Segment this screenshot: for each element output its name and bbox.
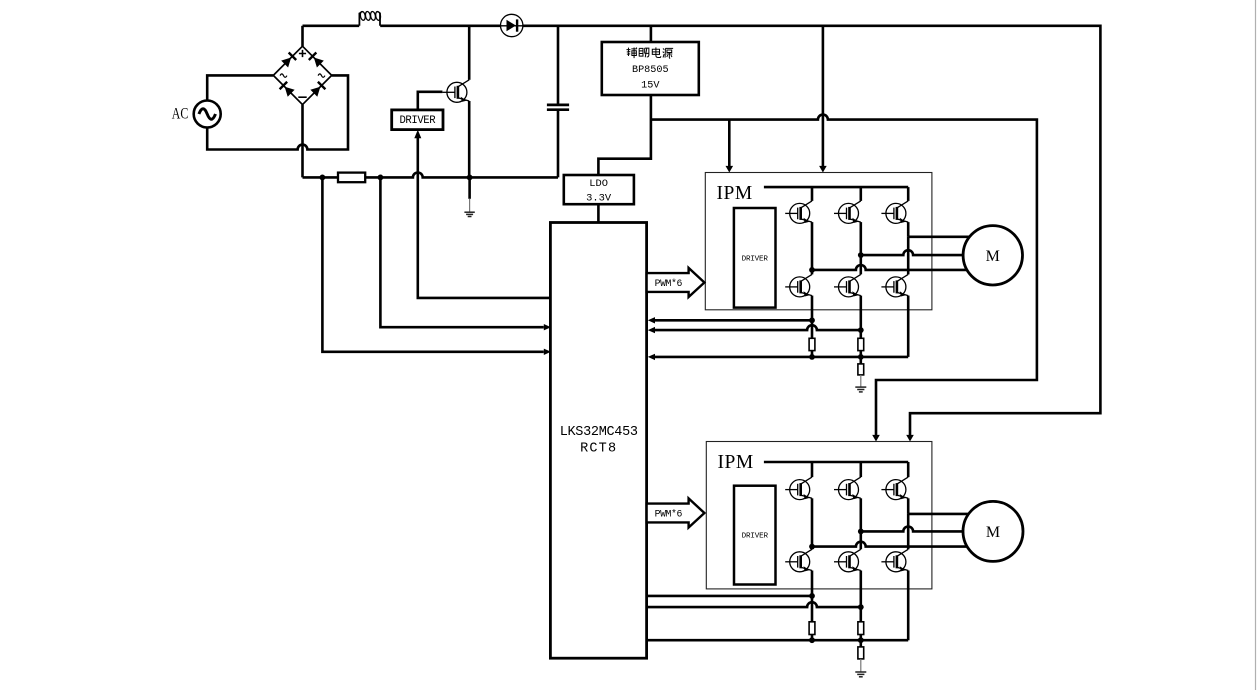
IPM2 sense line1: [647, 595, 812, 598]
LDO box: [564, 175, 634, 204]
IPM1 top transistor T2: [834, 201, 861, 224]
IPM2 bottom transistor B2: [834, 549, 861, 572]
diode D1: [500, 25, 523, 27]
IPM2 phase V wire (hop leg3): [861, 527, 993, 532]
capacitor C1: [547, 104, 569, 107]
IPM2 top transistor T3: [881, 477, 908, 500]
bridge ~ mark right: [318, 74, 325, 77]
ground G1: [468, 177, 471, 198]
MCU box LKS32MC453: [550, 223, 646, 659]
IPM2 bottom transistor B3: [881, 549, 908, 572]
motor M (IPM2): [963, 501, 1023, 561]
svg-text:M: M: [986, 248, 1000, 265]
svg-text:IPM: IPM: [717, 183, 753, 204]
IPM1 bottom transistor B2: [834, 274, 861, 297]
wire top DC bus: [303, 26, 1101, 437]
IPM2 box: [706, 442, 932, 589]
wire DRIVER to Q1 gate: [418, 92, 443, 110]
IPM1 junction dot s2: [858, 327, 864, 333]
transistor Q1 (PFC switch): [442, 80, 469, 103]
svg-text:3.3V: 3.3V: [586, 193, 612, 205]
arrow DC bus into IPM2: [906, 435, 914, 442]
arrow tap1 into MCU: [544, 349, 551, 355]
wire top bus to aux box: [650, 26, 653, 42]
IPM1 leg1 upper wires: [811, 187, 814, 201]
IPM1 phase V wire (hop leg3): [861, 250, 993, 255]
IPM2 junction dot s3a: [809, 637, 815, 643]
svg-text:BP8505: BP8505: [632, 65, 669, 76]
IPM2 junction dot s1: [809, 593, 815, 599]
label 辅助电源: [626, 47, 673, 58]
IPM2 shunt R_a: [811, 596, 814, 622]
IPM2 sense line3: [647, 639, 909, 642]
resistor R1: [338, 173, 365, 183]
aux power supply box BP8505: [602, 42, 699, 95]
IPM1 box: [705, 173, 932, 310]
svg-text:M: M: [986, 524, 1000, 541]
IPM1 junction dot phase V: [858, 252, 864, 258]
IPM1 sense line3: [654, 356, 908, 359]
IPM1 junction dot phase U: [809, 267, 815, 273]
IPM1 junction dot s3a: [809, 354, 815, 360]
IPM2 junction dot phase U: [809, 544, 815, 550]
IPM1 leg2 upper wires: [859, 187, 862, 201]
wire cap top: [557, 26, 560, 105]
IPM1 PWM*6 arrow: [647, 268, 705, 297]
IPM2 phase U wire (hop leg2): [812, 542, 993, 547]
IPM2 bottom transistor B1: [785, 549, 812, 572]
DRIVER box U2: [392, 110, 443, 130]
IPM1 phase U wire (hop leg2): [812, 265, 993, 270]
IPM1 shunt R_b: [859, 330, 862, 338]
wire cap bottom: [557, 110, 560, 178]
IPM2 sense line2 (hop leg1): [647, 602, 861, 607]
IPM1 top transistor T3: [881, 201, 908, 224]
wire bridge- dropper (hop drawn on AC wire): [301, 105, 304, 178]
IPM2 top transistor T2: [834, 477, 861, 500]
svg-text:IPM: IPM: [718, 452, 754, 473]
IPM2 leg1 upper wires: [811, 462, 814, 477]
wire 15V drop to IPM1: [728, 120, 731, 168]
svg-text:PWM*6: PWM*6: [655, 508, 683, 519]
svg-text:DRIVER: DRIVER: [399, 115, 436, 127]
IPM2 junction dot phase V: [858, 529, 864, 535]
motor M (IPM1): [963, 226, 1022, 285]
IPM1 sense line2 (hop leg1): [654, 325, 861, 330]
arrow 15V into IPM1: [726, 166, 734, 173]
bridge + mark: [299, 50, 306, 57]
wire DC drop to IPM1: [822, 26, 825, 168]
svg-text:DRIVER: DRIVER: [742, 533, 769, 541]
IPM1 shunt R_a: [811, 320, 814, 338]
IPM2 top rail: [764, 461, 908, 464]
svg-text:AC: AC: [172, 105, 189, 122]
inductor L1: [359, 13, 380, 26]
IPM2 shunt R_b: [859, 607, 862, 622]
wire 15V rail (hop over DC feed): [651, 115, 1037, 437]
IPM1 top transistor T1: [785, 201, 812, 224]
wire sense bus (hop over driver signal): [303, 172, 559, 177]
bridge ~ mark left: [280, 74, 287, 77]
wire bridge+ riser: [301, 26, 304, 46]
IPM2 phase W wire: [908, 513, 993, 516]
svg-text:LDO: LDO: [589, 178, 608, 190]
arrow DC into IPM1: [819, 166, 827, 173]
wire Q1 collector: [468, 26, 471, 80]
svg-text:RCT8: RCT8: [580, 442, 617, 457]
wire AC bottom (hop over bridge return): [207, 75, 348, 149]
IPM2 PWM*6 arrow: [647, 498, 705, 527]
wire LDO to MCU: [597, 204, 600, 222]
svg-text:15V: 15V: [641, 80, 660, 91]
IPM1 bottom transistor B3: [881, 274, 908, 297]
junction dot bus tap1: [320, 175, 326, 181]
AC source V1: [194, 101, 221, 128]
IPM1 shunt R_c to ground: [859, 357, 862, 364]
IPM1 phase W wire: [908, 236, 993, 239]
IPM1 DRIVER box: [734, 208, 776, 308]
svg-text:PWM*6: PWM*6: [655, 278, 683, 289]
IPM2 leg2 upper wires: [859, 462, 862, 477]
junction dot Q1 emitter: [467, 175, 473, 181]
right page border: [1255, 0, 1257, 690]
IPM2 junction dot s3b: [858, 637, 864, 643]
bridge - mark: [298, 96, 306, 98]
arrow into DRIVER: [414, 130, 421, 139]
IPM2 ground: [855, 671, 866, 673]
IPM1 junction dot s3b: [858, 354, 864, 360]
IPM1 junction dot s1: [809, 317, 815, 323]
svg-text:DRIVER: DRIVER: [742, 255, 769, 263]
IPM2 DRIVER box: [734, 486, 776, 585]
IPM1 bottom transistor B1: [785, 274, 812, 297]
wire aux bottom to LDO: [598, 95, 651, 175]
wire tap1 to MCU: [322, 177, 543, 351]
IPM2 shunt R_c to ground: [859, 640, 862, 647]
arrow 15V into IPM2: [872, 435, 880, 442]
wire AC top: [207, 75, 273, 100]
IPM1 leg3 upper wires: [907, 187, 910, 201]
IPM1 top rail: [764, 186, 908, 189]
junction dot bus tap2: [378, 175, 384, 181]
bridge rectifier BR1: [273, 46, 331, 104]
IPM2 top transistor T1: [785, 477, 812, 500]
wire MCU to DRIVER: [418, 138, 551, 298]
IPM2 junction dot s2: [858, 604, 864, 610]
IPM2 leg3 upper wires: [907, 462, 910, 477]
svg-text:LKS32MC453: LKS32MC453: [560, 425, 638, 440]
IPM1 sense line1: [654, 319, 812, 322]
IPM1 ground: [855, 386, 866, 388]
wire Q1 emitter: [468, 101, 471, 177]
wire tap2 to MCU: [380, 177, 543, 327]
arrow tap2 into MCU: [544, 324, 551, 330]
